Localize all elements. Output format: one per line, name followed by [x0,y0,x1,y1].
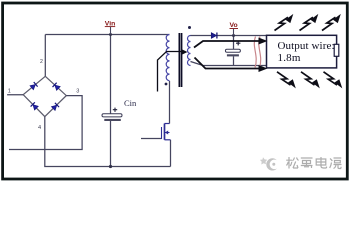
svg-text:1: 1 [8,89,11,95]
svg-text:2: 2 [40,59,43,65]
svg-text:4: 4 [38,125,41,131]
svg-text:1.8m: 1.8m [278,52,301,64]
svg-text:3: 3 [76,88,79,94]
svg-text:Cin: Cin [124,98,137,108]
svg-text:Output wire:: Output wire: [278,40,335,52]
